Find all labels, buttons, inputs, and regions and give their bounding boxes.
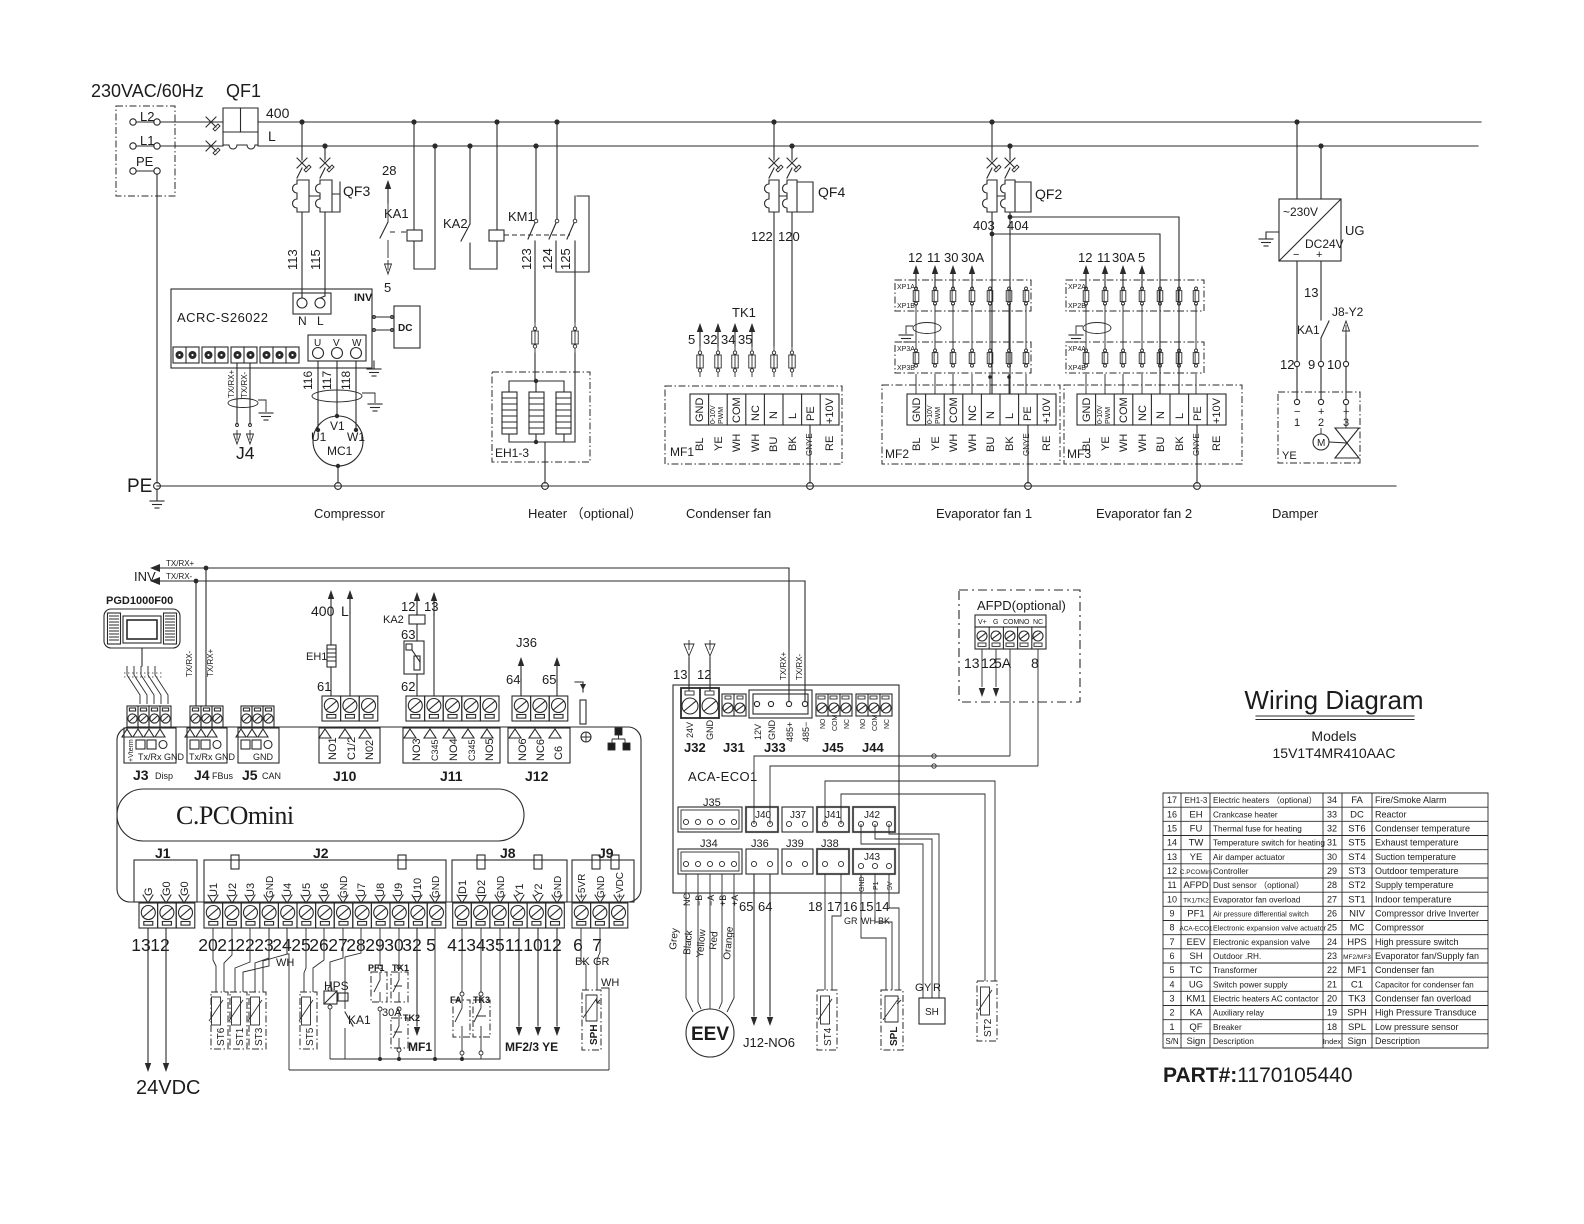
relay contact KA1 low (345, 928, 361, 1009)
svg-text:Transformer: Transformer (1213, 966, 1258, 975)
svg-text:J5: J5 (242, 767, 258, 783)
svg-text:25: 25 (1327, 923, 1337, 933)
svg-text:12V: 12V (753, 724, 763, 740)
svg-text:+10V: +10V (1041, 397, 1053, 424)
svg-text:GNYE: GNYE (1022, 433, 1031, 456)
network icon (608, 728, 630, 750)
svg-text:G0: G0 (161, 881, 173, 896)
svg-text:+B: +B (718, 895, 728, 906)
svg-text:J4: J4 (194, 767, 210, 783)
svg-text:EH1: EH1 (306, 651, 327, 663)
svg-text:AFPD(optional): AFPD(optional) (977, 598, 1066, 613)
svg-text:EH: EH (1189, 809, 1202, 820)
svg-text:403: 403 (973, 218, 995, 233)
svg-text:J40: J40 (755, 810, 772, 821)
svg-text:PWM: PWM (718, 407, 725, 424)
svg-text:J8: J8 (500, 845, 516, 861)
svg-text:Evaporator fan 2: Evaporator fan 2 (1096, 506, 1192, 521)
svg-text:PE: PE (127, 476, 152, 497)
power supply UG (1279, 199, 1341, 261)
svg-text:P1: P1 (873, 881, 880, 890)
svg-text:9: 9 (1308, 357, 1315, 372)
svg-text:CAN: CAN (262, 771, 281, 781)
svg-text:1: 1 (1169, 1022, 1174, 1032)
sensor ST6 (213, 928, 216, 992)
svg-text:3: 3 (1169, 994, 1174, 1004)
svg-text:C345: C345 (467, 739, 477, 761)
svg-text:30: 30 (944, 250, 958, 265)
svg-text:Breaker: Breaker (1213, 1023, 1242, 1032)
svg-text:Sign: Sign (1347, 1036, 1366, 1047)
svg-text:29: 29 (1327, 866, 1337, 876)
svg-text:118: 118 (339, 371, 353, 390)
svg-text:High Pressure Transduce: High Pressure Transduce (1375, 1008, 1477, 1018)
svg-text:DC: DC (398, 323, 412, 334)
svg-text:0-10V: 0-10V (927, 405, 934, 424)
wire display to ribbon (141, 648, 143, 666)
svg-text:4: 4 (1169, 979, 1174, 989)
svg-text:34: 34 (1327, 795, 1337, 805)
svg-text:TW: TW (1189, 838, 1204, 849)
svg-text:GND: GND (859, 876, 866, 892)
svg-text:5: 5 (1138, 250, 1145, 265)
svg-text:11: 11 (1097, 250, 1111, 265)
svg-text:Outdoor .RH.: Outdoor .RH. (1213, 952, 1261, 961)
jumper box XP2 (1066, 280, 1204, 311)
svg-text:ST4: ST4 (1348, 852, 1365, 863)
connector J37 (782, 807, 813, 832)
svg-text:Grey: Grey (668, 928, 681, 951)
wires down to ACA J33 (788, 568, 790, 701)
svg-text:10: 10 (523, 935, 543, 955)
svg-text:J2: J2 (313, 845, 329, 861)
svg-text:32: 32 (703, 332, 717, 347)
svg-text:V+: V+ (978, 619, 987, 626)
svg-text:19: 19 (1327, 1008, 1337, 1018)
svg-text:YE: YE (1190, 852, 1203, 863)
svg-text:25: 25 (291, 935, 310, 955)
svg-text:64: 64 (758, 899, 772, 914)
heater EH1-3 box (492, 372, 590, 462)
svg-text:J11: J11 (440, 768, 463, 784)
svg-text:MF1: MF1 (670, 445, 694, 459)
svg-text:J36: J36 (516, 635, 537, 650)
svg-text:Condenser temperature: Condenser temperature (1375, 824, 1470, 834)
collector bus long WH (289, 1069, 609, 1071)
svg-text:YE: YE (1282, 450, 1297, 462)
svg-text:Indoor temperature: Indoor temperature (1375, 894, 1452, 904)
svg-text:ID1: ID1 (457, 880, 469, 897)
svg-text:8: 8 (1169, 923, 1174, 933)
arrows MF3 12 11 30A 5 (1083, 265, 1089, 288)
svg-text:5: 5 (1169, 965, 1174, 975)
svg-text:Electric heaters AC contactor: Electric heaters AC contactor (1213, 995, 1319, 1004)
svg-text:J31: J31 (723, 740, 745, 755)
connector J10 body (319, 728, 380, 763)
connector J3 body (122, 728, 176, 763)
wires QF3 to N L (301, 296, 303, 298)
svg-text:NC: NC (750, 405, 762, 421)
svg-text:J33: J33 (764, 740, 786, 755)
sensor ST1 (235, 928, 250, 992)
svg-text:20: 20 (198, 935, 218, 955)
svg-text:12: 12 (697, 667, 711, 682)
svg-text:N02: N02 (364, 740, 376, 760)
svg-text:INV: INV (354, 292, 373, 304)
svg-text:+A: +A (730, 895, 740, 906)
svg-text:Heater （optional）: Heater （optional） (528, 506, 642, 521)
svg-text:KA: KA (1190, 1008, 1203, 1019)
svg-text:GR: GR (844, 916, 858, 926)
svg-text:WH: WH (861, 916, 876, 926)
svg-text:18: 18 (1327, 1022, 1337, 1032)
svg-text:XP4A: XP4A (1068, 346, 1086, 353)
svg-text:NC: NC (844, 719, 851, 729)
collector bus short (330, 1058, 500, 1060)
valve EEV wires (686, 874, 693, 1012)
svg-text:9: 9 (1169, 909, 1174, 919)
wires to UG (1296, 122, 1298, 199)
svg-text:MF2/3 YE: MF2/3 YE (505, 1040, 558, 1054)
heater element 1 (502, 392, 517, 434)
motor MC1 (313, 416, 363, 466)
svg-text:J3: J3 (133, 767, 149, 783)
svg-text:Fire/Smoke Alarm: Fire/Smoke Alarm (1375, 795, 1447, 805)
svg-text:13: 13 (673, 667, 687, 682)
svg-text:64: 64 (506, 672, 520, 687)
svg-text:NC: NC (682, 893, 692, 906)
svg-text:Damper: Damper (1272, 506, 1319, 521)
svg-text:Description: Description (1213, 1037, 1254, 1046)
wire motor to PE (337, 466, 339, 483)
svg-text:−B: −B (694, 895, 704, 906)
ferrite ring motor (312, 390, 362, 402)
svg-text:Dust sensor （optional）: Dust sensor （optional） (1213, 881, 1304, 890)
svg-text:GND: GND (694, 398, 706, 423)
svg-text:J12-NO6: J12-NO6 (743, 1035, 795, 1050)
connector J31 (722, 694, 746, 716)
jumper box XP4 (1066, 342, 1204, 373)
wire MF2 PE to bus (1027, 425, 1029, 483)
svg-text:Compressor: Compressor (1375, 923, 1424, 933)
svg-text:30A: 30A (1112, 250, 1135, 265)
AFPD wires (981, 649, 983, 687)
svg-text:Condenser fan: Condenser fan (686, 506, 771, 521)
svg-text:−A: −A (706, 895, 716, 906)
contact KM1-1 (535, 146, 537, 219)
svg-text:J45: J45 (822, 740, 844, 755)
svg-text:J36: J36 (751, 838, 769, 850)
svg-text:TX/RX+: TX/RX+ (779, 651, 788, 680)
contact KM1-3 (574, 196, 576, 219)
svg-text:Exhaust temperature: Exhaust temperature (1375, 838, 1459, 848)
svg-text:C345: C345 (430, 739, 440, 761)
svg-text:ST4: ST4 (823, 1027, 834, 1046)
svg-text:ST3: ST3 (1348, 866, 1365, 877)
svg-text:BK: BK (878, 916, 890, 926)
svg-text:ST2: ST2 (1348, 880, 1365, 891)
svg-text:~230V: ~230V (1283, 205, 1318, 219)
connector J5 screws (241, 706, 252, 727)
wires through jumpers MF3 (1086, 304, 1196, 394)
svg-text:XP2B: XP2B (1068, 303, 1086, 310)
svg-text:MF1: MF1 (408, 1040, 432, 1054)
svg-text:Evaporator fan 1: Evaporator fan 1 (936, 506, 1032, 521)
wires TXRX to J4 antenna (236, 363, 238, 424)
connector J4 arrows (234, 430, 241, 444)
svg-text:MF1: MF1 (1348, 965, 1367, 976)
svg-text:C.PCOmini: C.PCOmini (176, 801, 294, 830)
svg-text:SH: SH (925, 1007, 939, 1018)
ground hook near J12 (575, 682, 583, 692)
pressure sensor SPL (881, 990, 903, 1050)
fuse on 123 (532, 322, 538, 353)
svg-text:0-10V: 0-10V (1097, 405, 1104, 424)
svg-text:400: 400 (266, 105, 290, 121)
wire MF1 PE to bus (809, 425, 811, 483)
svg-text:ACRC-S26022: ACRC-S26022 (177, 310, 269, 325)
svg-text:DC: DC (1350, 809, 1364, 820)
wire pin5 to bus (434, 928, 436, 1059)
svg-text:QF1: QF1 (226, 81, 261, 101)
svg-text:21: 21 (217, 935, 236, 955)
svg-text:C.PCOMini: C.PCOMini (1180, 869, 1213, 876)
svg-text:Air damper actuator: Air damper actuator (1213, 853, 1285, 862)
svg-text:NC: NC (1033, 619, 1043, 626)
connector J12 body (508, 728, 570, 763)
display terminal PGD (104, 609, 180, 648)
svg-text:22: 22 (235, 935, 254, 955)
svg-text:WH: WH (1118, 434, 1130, 452)
svg-text:N: N (298, 314, 307, 328)
junction dots bus2 (322, 143, 1323, 148)
legend table (1163, 793, 1488, 1048)
svg-text:WH: WH (276, 957, 294, 969)
svg-text:J32: J32 (684, 740, 706, 755)
wires down to J4 FBus (195, 581, 197, 706)
svg-text:11: 11 (927, 250, 941, 265)
svg-text:GND: GND (253, 752, 274, 762)
svg-text:27: 27 (1327, 894, 1337, 904)
connector J4 screws (190, 706, 201, 727)
ferrite ring J4 (228, 399, 258, 408)
connector J41 (817, 807, 849, 832)
svg-text:22: 22 (1327, 965, 1337, 975)
svg-text:PE: PE (1022, 406, 1034, 421)
svg-text:24VDC: 24VDC (136, 1077, 200, 1099)
svg-text:−: − (1293, 249, 1299, 261)
svg-text:L: L (268, 128, 276, 144)
wires through jumpers MF2 (916, 287, 1026, 394)
wire J40 to AFPD COM (754, 756, 1010, 824)
svg-text:WH: WH (967, 434, 979, 452)
svg-text:30: 30 (1327, 852, 1337, 862)
svg-text:Reactor: Reactor (1375, 809, 1407, 819)
svg-text:Air pressure differential swit: Air pressure differential switch (1213, 910, 1309, 919)
svg-text:TX/RX+: TX/RX+ (227, 369, 236, 398)
svg-text:J4: J4 (236, 443, 255, 463)
svg-text:GND: GND (911, 398, 923, 423)
relay KA2 coil + arrows 12 13 (414, 592, 420, 615)
connector J40 (746, 807, 778, 832)
contact KM1-2 (556, 122, 558, 219)
svg-text:NO: NO (820, 718, 827, 729)
svg-text:ST3: ST3 (254, 1027, 265, 1046)
svg-text:6: 6 (1169, 951, 1174, 961)
svg-text:124: 124 (540, 248, 555, 270)
wire J41 to ST2 (825, 781, 995, 981)
svg-text:KA2: KA2 (443, 216, 468, 231)
connector MF2 box (882, 385, 1060, 464)
connector J32 (681, 688, 719, 718)
terminal strip ACRC (173, 347, 299, 363)
svg-text:62: 62 (401, 679, 415, 694)
svg-text:Description: Description (1375, 1036, 1420, 1046)
svg-text:10: 10 (1327, 357, 1341, 372)
svg-text:J12: J12 (525, 768, 549, 784)
svg-text:13: 13 (1167, 852, 1177, 862)
svg-text:XP1A: XP1A (897, 284, 915, 291)
svg-text:12: 12 (401, 599, 415, 614)
svg-text:26: 26 (1327, 909, 1337, 919)
svg-text:Compressor drive Inverter: Compressor drive Inverter (1375, 909, 1479, 919)
svg-text:16: 16 (1167, 809, 1177, 819)
svg-text:J8-Y2: J8-Y2 (1332, 305, 1364, 319)
svg-text:14: 14 (1167, 838, 1177, 848)
fuse on 125 (572, 322, 578, 353)
svg-text:High pressure switch: High pressure switch (1375, 937, 1459, 947)
wire MF3 PE to bus (1196, 425, 1198, 483)
svg-text:TX/RX-: TX/RX- (240, 371, 249, 398)
svg-text:NC: NC (884, 719, 891, 729)
svg-text:27: 27 (328, 935, 347, 955)
svg-text:Compressor: Compressor (314, 506, 385, 521)
actuator ACA-ECO1 box (673, 685, 899, 893)
svg-text:+: + (1316, 249, 1322, 261)
controller C.PCOmini body (117, 727, 641, 902)
svg-text:34: 34 (466, 935, 486, 955)
connector J44 (856, 694, 892, 716)
svg-text:ACA-ECO1: ACA-ECO1 (1179, 926, 1213, 933)
svg-text:Capacitor for condenser fan: Capacitor for condenser fan (1375, 980, 1474, 989)
junction dots bus1 (299, 119, 1299, 124)
svg-text:RE: RE (824, 436, 836, 451)
svg-text:14: 14 (875, 899, 889, 914)
svg-text:11: 11 (1167, 880, 1176, 890)
wire TX/RX+ (160, 567, 789, 569)
svg-text:C6: C6 (553, 746, 565, 760)
svg-text:122: 122 (751, 229, 773, 244)
svg-text:YE: YE (1100, 436, 1112, 451)
svg-text:Sign: Sign (1186, 1036, 1205, 1047)
AFPD terminal strip (975, 615, 1046, 627)
svg-text:Condenser fan: Condenser fan (1375, 965, 1434, 975)
svg-text:UG: UG (1189, 979, 1203, 990)
svg-text:HPS: HPS (1347, 937, 1367, 948)
svg-text:S/N: S/N (1165, 1037, 1179, 1046)
svg-text:5: 5 (426, 935, 436, 955)
svg-text:12: 12 (150, 935, 169, 955)
svg-text:29: 29 (365, 935, 384, 955)
fuses row MF1 (697, 346, 703, 377)
connector J3 screws (127, 706, 138, 727)
svg-text:EEV: EEV (1186, 937, 1206, 948)
brand stadium (117, 789, 524, 841)
svg-text:NIV: NIV (1349, 909, 1366, 920)
svg-text:XP1B: XP1B (897, 303, 915, 310)
svg-text:12: 12 (908, 250, 922, 265)
sensor ST4 (817, 990, 837, 1050)
svg-text:13: 13 (424, 599, 438, 614)
wire 113 (301, 212, 303, 296)
svg-text:NO: NO (860, 718, 867, 729)
svg-text:BL: BL (694, 438, 706, 451)
svg-text:Outdoor temperature: Outdoor temperature (1375, 866, 1459, 876)
svg-text:TX/RX-: TX/RX- (166, 572, 193, 581)
svg-text:Red: Red (708, 931, 721, 950)
svg-text:18: 18 (808, 899, 822, 914)
wires Y1 Y2 GND to dampers (518, 928, 520, 1026)
svg-text:13: 13 (1304, 285, 1318, 300)
svg-text:M: M (1317, 438, 1325, 449)
svg-text:J39: J39 (786, 838, 804, 850)
svg-text:J1: J1 (155, 845, 171, 861)
wire J42 to SH (889, 824, 939, 998)
wire to MF1 (416, 928, 418, 1026)
svg-text:ACA-ECO1: ACA-ECO1 (688, 769, 758, 784)
svg-text:GND: GND (767, 720, 777, 741)
wire 120 (791, 212, 793, 346)
svg-text:1: 1 (1294, 417, 1300, 429)
svg-text:YE: YE (713, 436, 725, 451)
svg-text:Temperature switch for heating: Temperature switch for heating (1213, 839, 1325, 848)
svg-text:ST1: ST1 (1348, 894, 1365, 905)
svg-text:113: 113 (285, 249, 300, 270)
svg-text:GND: GND (705, 720, 715, 741)
arrows 5 32 34 35 (697, 323, 703, 346)
svg-text:Crankcase heater: Crankcase heater (1213, 810, 1278, 819)
wire TX/RX- (160, 580, 805, 582)
wire bus1 L2/400 (258, 121, 1481, 123)
terminal N L (293, 293, 331, 314)
svg-text:KA1: KA1 (348, 1013, 371, 1027)
ferrite MF3 (1083, 323, 1111, 334)
jumper box XP3 (895, 342, 1031, 373)
svg-text:+Vterm: +Vterm (128, 739, 135, 762)
svg-text:2: 2 (1318, 417, 1324, 429)
svg-text:WH: WH (731, 434, 743, 452)
svg-text:BU: BU (1155, 437, 1167, 452)
svg-text:Thermal fuse for heating: Thermal fuse for heating (1213, 825, 1302, 834)
svg-text:10: 10 (1167, 894, 1177, 904)
svg-text:ST2: ST2 (983, 1018, 994, 1037)
svg-text:N: N (768, 411, 780, 419)
svg-text:117: 117 (320, 371, 334, 390)
svg-text:28: 28 (1327, 880, 1337, 890)
heater element 2 (529, 392, 544, 434)
svg-text:11: 11 (505, 935, 523, 955)
breaker QF4 (773, 122, 775, 160)
svg-text:24: 24 (1327, 937, 1337, 947)
pin numbers row (131, 935, 602, 955)
svg-text:TC: TC (1190, 965, 1203, 976)
svg-text:QF4: QF4 (818, 184, 845, 200)
svg-text:SPL: SPL (1348, 1022, 1366, 1033)
svg-text:32: 32 (1327, 824, 1337, 834)
sensor ST2 (977, 981, 997, 1041)
svg-text:34: 34 (721, 332, 735, 347)
svg-text:28: 28 (382, 163, 396, 178)
